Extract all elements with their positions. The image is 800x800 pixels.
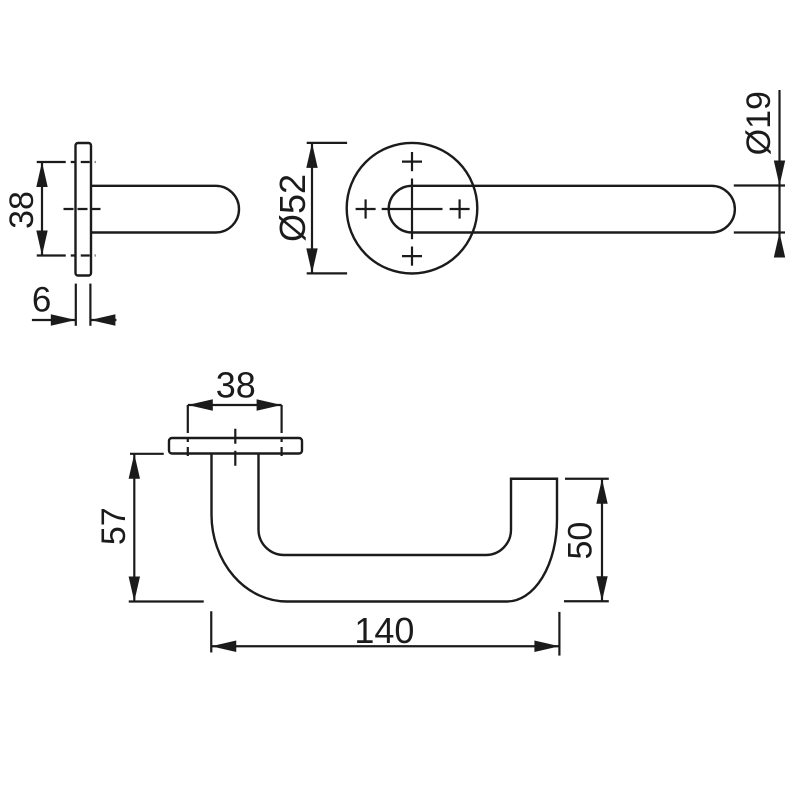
svg-text:57: 57 (95, 507, 133, 545)
svg-text:Ø19: Ø19 (740, 91, 778, 155)
svg-text:140: 140 (354, 610, 414, 651)
svg-text:38: 38 (216, 365, 256, 406)
svg-text:50: 50 (562, 522, 600, 560)
svg-text:38: 38 (3, 191, 41, 229)
svg-text:6: 6 (32, 281, 51, 320)
svg-text:Ø52: Ø52 (272, 174, 313, 242)
